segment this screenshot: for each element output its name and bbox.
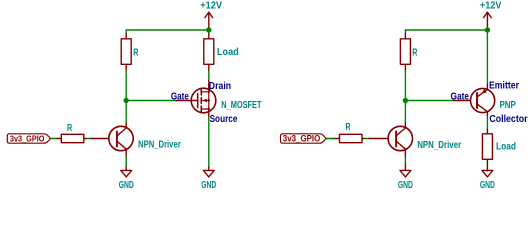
svg-text:Load: Load	[496, 142, 516, 153]
svg-text:R: R	[345, 122, 351, 133]
svg-text:GND: GND	[480, 180, 495, 191]
svg-text:3v3_GPIO: 3v3_GPIO	[10, 133, 45, 143]
svg-text:Load: Load	[217, 47, 239, 58]
svg-text:GND: GND	[398, 180, 413, 191]
svg-text:+12V: +12V	[480, 1, 502, 12]
svg-text:Drain: Drain	[209, 81, 231, 92]
svg-text:N_MOSFET: N_MOSFET	[221, 100, 262, 111]
svg-text:+12V: +12V	[200, 1, 222, 12]
svg-text:3v3_GPIO: 3v3_GPIO	[283, 134, 321, 144]
svg-text:Source: Source	[210, 114, 238, 125]
svg-text:Gate: Gate	[171, 92, 189, 103]
svg-text:NPN_Driver: NPN_Driver	[417, 140, 461, 151]
svg-text:R: R	[67, 123, 73, 134]
svg-text:PNP: PNP	[500, 100, 516, 111]
svg-text:GND: GND	[201, 180, 216, 191]
svg-text:R: R	[133, 48, 139, 59]
svg-text:Collector: Collector	[489, 114, 527, 125]
svg-text:R: R	[412, 48, 418, 59]
svg-text:NPN_Driver: NPN_Driver	[138, 140, 181, 151]
svg-text:GND: GND	[119, 180, 134, 191]
svg-text:Emitter: Emitter	[489, 81, 519, 92]
svg-text:Gate: Gate	[451, 92, 470, 103]
